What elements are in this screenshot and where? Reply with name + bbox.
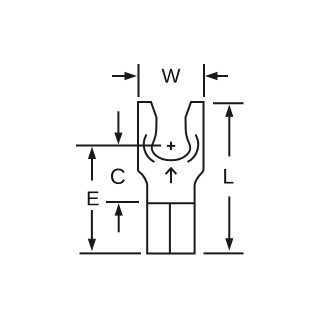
L dimension top arrow (up) <box>225 104 233 156</box>
insertion direction arrow (up) <box>166 168 177 183</box>
center reference line (horizontal) <box>76 145 161 147</box>
label C <box>111 169 125 185</box>
C bottom reference line <box>106 201 139 203</box>
L dimension top extension line <box>213 102 244 104</box>
label W <box>162 69 181 83</box>
W dimension left arrow <box>112 72 137 80</box>
bottom-left extension line <box>80 252 142 254</box>
outer arc left (around stud circle) <box>144 135 155 163</box>
stud center cross mark <box>167 142 175 150</box>
C dimension top arrow (down) <box>114 111 122 144</box>
E dimension top arrow (up) <box>88 147 96 181</box>
W dimension left extension line <box>138 64 140 97</box>
L dimension bottom extension line <box>204 252 244 254</box>
label E <box>88 192 99 206</box>
terminal body outline (fork terminal) <box>138 102 204 254</box>
outer arc right (around stud circle) <box>188 135 199 163</box>
barrel center seam line <box>169 203 171 253</box>
L dimension bottom arrow (down) <box>225 196 233 250</box>
label L <box>224 169 233 183</box>
barrel top seam line <box>147 202 194 204</box>
W dimension right arrow <box>205 72 228 80</box>
C dimension bottom arrow (up) <box>115 203 123 232</box>
W dimension right extension line <box>203 64 205 97</box>
E dimension bottom arrow (down) <box>88 210 96 251</box>
